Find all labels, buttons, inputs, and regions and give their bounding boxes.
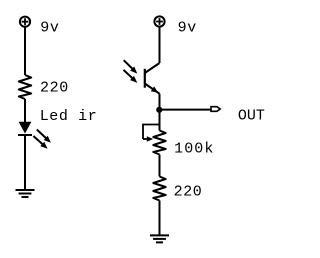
svg-text:100k: 100k — [174, 141, 214, 158]
svg-text:9v: 9v — [40, 20, 59, 37]
svg-text:9v: 9v — [178, 19, 197, 36]
svg-text:Led ir: Led ir — [40, 108, 98, 125]
svg-text:220: 220 — [40, 80, 69, 97]
svg-text:OUT: OUT — [238, 108, 265, 125]
svg-text:220: 220 — [174, 184, 203, 201]
